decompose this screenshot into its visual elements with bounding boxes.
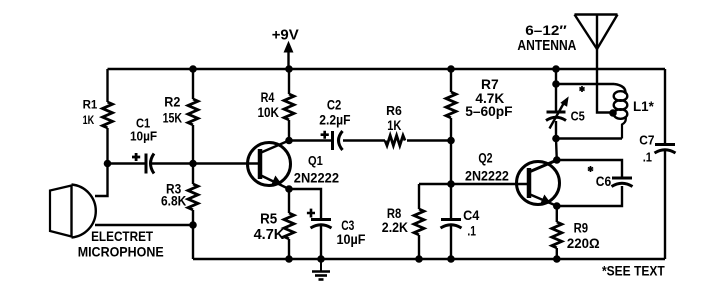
wire base Q2 — [451, 183, 527, 185]
svg-text:Q1: Q1 — [308, 153, 323, 168]
wire C3 branch — [289, 189, 321, 220]
wire C6 loop bottom — [557, 186, 622, 206]
svg-text:2N2222: 2N2222 — [465, 168, 509, 184]
wire right edge lower (from C7) — [664, 150, 666, 259]
node Q2 collector — [553, 156, 561, 164]
node top rail / C5 — [552, 65, 560, 73]
node mic return — [189, 221, 197, 229]
resistor R7 — [446, 92, 456, 118]
svg-text:C7: C7 — [639, 132, 654, 147]
node C1-R2-R3 base Q1 — [189, 160, 197, 168]
resistor R1 — [103, 102, 113, 128]
node dots — [104, 65, 617, 263]
resistor R3 — [188, 184, 198, 210]
capacitor C2 — [333, 131, 343, 150]
wire C2 line from collector node — [289, 139, 331, 141]
node antenna tap — [609, 109, 617, 117]
capacitor C3 — [311, 220, 332, 229]
capacitor C5 variable — [546, 98, 568, 129]
svg-text:15K: 15K — [163, 109, 183, 125]
svg-text:6–12″: 6–12″ — [525, 23, 567, 38]
wire tank bottom to collector node — [555, 139, 558, 161]
svg-text:6.8K: 6.8K — [161, 193, 187, 208]
node R6-R7 — [447, 137, 455, 145]
asterisk near C6 — [588, 166, 593, 172]
node bottom rail C3/ground — [317, 255, 325, 263]
svg-text:2N2222: 2N2222 — [294, 169, 339, 185]
wire Q2 emitter to R9 — [556, 206, 558, 222]
node R1-C1 — [104, 160, 112, 168]
node Q1 emitter — [285, 185, 293, 193]
svg-text:R1: R1 — [83, 100, 98, 112]
transistor Q2 — [517, 160, 560, 206]
svg-text:C6: C6 — [596, 173, 612, 189]
resistor R5 — [284, 213, 294, 239]
wire R8 to bottom rail — [418, 235, 420, 259]
svg-text:10µF: 10µF — [337, 231, 366, 247]
plus sign C2 — [321, 131, 329, 139]
svg-text:R2: R2 — [164, 93, 180, 109]
svg-text:C2: C2 — [327, 96, 342, 112]
svg-text:R4: R4 — [261, 90, 275, 105]
capacitor C1 — [146, 154, 154, 174]
wire R6 to R7 node — [407, 139, 451, 141]
node R7-C4 base Q2 — [447, 180, 455, 188]
svg-text:4.7K: 4.7K — [254, 226, 285, 243]
node top rail / R4 — [285, 65, 293, 73]
svg-text:10µF: 10µF — [130, 130, 157, 144]
plus sign C3 — [307, 209, 315, 218]
svg-text:220Ω: 220Ω — [567, 235, 600, 251]
wire right edge upper (to C7) — [664, 69, 666, 144]
node Q1 collector — [285, 137, 293, 145]
capacitor C6 — [612, 178, 633, 187]
node top rail / R2 — [189, 65, 197, 73]
svg-text:R9: R9 — [574, 221, 589, 236]
node bottom rail R9 — [553, 255, 561, 263]
ground — [312, 259, 330, 280]
svg-text:1K: 1K — [387, 117, 401, 133]
wire mic bottom lead — [95, 224, 193, 226]
supply +9V arrow — [287, 50, 289, 69]
svg-text:R5: R5 — [260, 210, 277, 227]
wire R5 to bottom rail — [288, 239, 290, 259]
wire Q1 emitter to R5 — [288, 189, 290, 213]
wire mic top lead — [95, 164, 108, 197]
capacitor C7 — [655, 145, 676, 154]
resistor R6 — [385, 136, 405, 146]
svg-text:R6: R6 — [386, 103, 402, 118]
wire tank top — [556, 83, 614, 85]
node tank bottom — [552, 135, 560, 143]
svg-text:ANTENNA: ANTENNA — [517, 38, 576, 54]
wire tank bottom — [556, 137, 622, 139]
wire R8 branch — [419, 183, 451, 185]
svg-text:10K: 10K — [258, 105, 280, 120]
resistor R9 — [552, 222, 562, 248]
transistor Q1 — [248, 141, 291, 190]
resistor R4 — [284, 94, 294, 120]
svg-text:.1: .1 — [643, 149, 652, 164]
node bottom rail R8 — [415, 255, 423, 263]
node top rail / R7 — [447, 65, 455, 73]
wire R4 branch vertical — [288, 69, 290, 94]
svg-text:C5: C5 — [571, 109, 585, 124]
wire top rail — [108, 68, 666, 70]
svg-text:Q2: Q2 — [478, 150, 492, 166]
svg-text:1K: 1K — [83, 115, 95, 127]
wire R3 to bottom rail — [192, 210, 194, 259]
wire R7 branch vertical — [450, 69, 452, 92]
wire R1 branch vertical — [106, 69, 108, 102]
wire C1 input line — [108, 162, 147, 164]
svg-text:ELECTRET: ELECTRET — [91, 228, 153, 244]
svg-text:C4: C4 — [463, 207, 479, 223]
wire base node to C4 — [450, 184, 452, 220]
resistor R8 — [414, 209, 424, 235]
node Q2 emitter — [553, 202, 561, 210]
node bottom rail R5 — [285, 255, 293, 263]
wire R2 branch vertical — [192, 69, 194, 99]
antenna — [575, 15, 618, 113]
svg-text:5–60pF: 5–60pF — [465, 103, 513, 119]
wire R7 node down to base node — [450, 141, 452, 185]
svg-text:*SEE TEXT: *SEE TEXT — [602, 263, 665, 279]
wire base Q1 — [193, 162, 258, 164]
svg-text:+9V: +9V — [272, 27, 299, 44]
capacitor C4 — [441, 220, 462, 229]
svg-text:.1: .1 — [467, 223, 476, 239]
wire R9 to bottom rail — [556, 248, 558, 259]
wire R3 segment — [192, 164, 194, 185]
node tank top — [552, 80, 560, 88]
svg-text:L1*: L1* — [633, 98, 654, 114]
inductor L1 — [614, 84, 628, 139]
wire bottom rail — [193, 258, 665, 260]
plus sign C1 — [132, 153, 140, 161]
svg-text:MICROPHONE: MICROPHONE — [78, 243, 164, 259]
electret microphone — [50, 185, 96, 238]
resistor R2 — [188, 99, 198, 125]
wire C6 loop top — [557, 160, 622, 178]
asterisk near C5 — [579, 86, 584, 92]
svg-text:2.2K: 2.2K — [382, 219, 408, 235]
node bottom rail C4 — [447, 255, 455, 263]
svg-text:2.2µF: 2.2µF — [319, 112, 351, 128]
svg-text:C1: C1 — [136, 117, 150, 131]
wire C5 tank branch vertical — [555, 69, 557, 84]
